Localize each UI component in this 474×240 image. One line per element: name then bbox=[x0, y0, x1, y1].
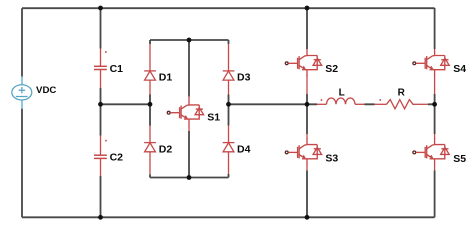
node: bridge left mid junction bbox=[148, 102, 153, 107]
diode D2 bbox=[144, 126, 156, 175]
wire: left source branch bbox=[21, 8, 23, 217]
wire: bridge center branch bbox=[188, 40, 190, 178]
svg-text:S5: S5 bbox=[453, 153, 466, 165]
node: hbridge right mid junction bbox=[432, 102, 437, 107]
wire: bridge right branch stubs bbox=[228, 40, 230, 178]
svg-text:R: R bbox=[398, 88, 406, 99]
wire: capacitor branch bbox=[100, 8, 102, 217]
svg-text:S2: S2 bbox=[325, 63, 338, 75]
wire: bridge top rail bbox=[150, 39, 229, 41]
diode D4 bbox=[223, 126, 235, 175]
svg-text:C1: C1 bbox=[110, 63, 124, 75]
resistor R bbox=[375, 99, 429, 109]
node: bridge right mid junction bbox=[226, 102, 231, 107]
node: top hbridge junction bbox=[305, 6, 310, 11]
source VDC bbox=[12, 77, 32, 109]
wire: bottom bus bbox=[22, 216, 435, 218]
node: hbridge left mid junction bbox=[305, 102, 310, 107]
wire: load interconnects bbox=[365, 103, 435, 105]
svg-text:S3: S3 bbox=[325, 153, 338, 165]
mosfet S3 bbox=[285, 134, 321, 171]
svg-text:D4: D4 bbox=[237, 143, 251, 155]
wire: mid horizontal left bbox=[101, 103, 151, 105]
mosfet S4 bbox=[413, 49, 449, 94]
svg-text:VDC: VDC bbox=[36, 85, 57, 95]
node: capacitor midpoint junction bbox=[98, 102, 103, 107]
capacitor C1 bbox=[94, 49, 107, 89]
mosfet S2 bbox=[285, 49, 321, 94]
diode D1 bbox=[144, 44, 156, 95]
node: top capacitor junction bbox=[98, 6, 103, 11]
svg-text:S1: S1 bbox=[207, 111, 220, 123]
svg-text:D1: D1 bbox=[159, 71, 173, 83]
wire: bridge bottom rail bbox=[150, 177, 229, 179]
mosfet S1 bbox=[167, 97, 203, 132]
svg-text:L: L bbox=[339, 88, 345, 99]
wire: mid horizontal right bbox=[229, 103, 318, 105]
wire: hbridge right leg bbox=[434, 8, 436, 217]
node: bridge bottom center junction bbox=[187, 175, 192, 180]
node: bottom capacitor junction bbox=[98, 215, 103, 220]
node: bottom hbridge junction bbox=[305, 215, 310, 220]
svg-text:C2: C2 bbox=[110, 152, 124, 164]
svg-text:D2: D2 bbox=[159, 143, 173, 155]
inductor L bbox=[317, 98, 365, 104]
wire: bridge left branch stubs bbox=[149, 40, 151, 178]
node: bridge top center junction bbox=[187, 38, 192, 43]
capacitor C2 bbox=[94, 136, 107, 177]
diode D3 bbox=[223, 44, 235, 95]
svg-text:S4: S4 bbox=[453, 63, 466, 75]
mosfet S5 bbox=[413, 134, 449, 171]
svg-text:D3: D3 bbox=[237, 71, 251, 83]
wire: top bus bbox=[22, 7, 435, 9]
wire: hbridge left leg bbox=[306, 8, 308, 217]
